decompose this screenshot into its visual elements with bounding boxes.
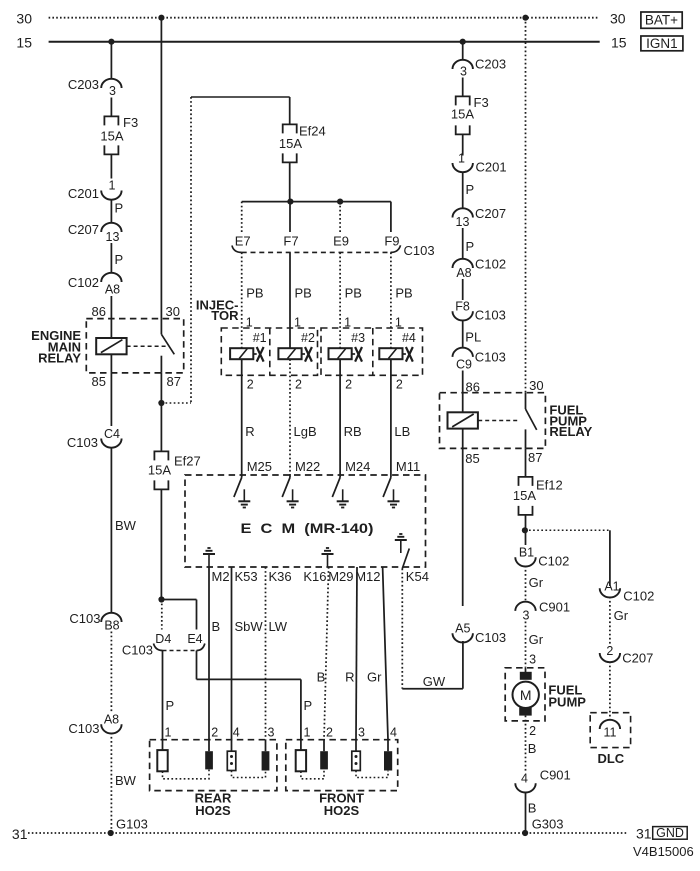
svg-text:C102: C102: [475, 257, 506, 272]
svg-text:K36: K36: [269, 569, 292, 584]
svg-text:C103: C103: [69, 611, 100, 626]
svg-text:R: R: [245, 424, 254, 439]
svg-text:30: 30: [16, 11, 32, 27]
svg-text:SbW: SbW: [235, 619, 264, 634]
svg-text:30: 30: [529, 378, 543, 393]
svg-text:C103: C103: [67, 435, 98, 450]
svg-text:LW: LW: [269, 619, 288, 634]
svg-text:BW: BW: [115, 773, 137, 788]
svg-text:M29: M29: [328, 569, 353, 584]
svg-text:2: 2: [529, 724, 536, 738]
svg-text:C207: C207: [622, 651, 653, 666]
svg-text:4: 4: [521, 772, 528, 786]
svg-text:3: 3: [460, 65, 467, 79]
svg-text:30: 30: [610, 11, 626, 27]
svg-text:13: 13: [106, 230, 120, 244]
svg-text:M25: M25: [247, 459, 272, 474]
svg-text:87: 87: [528, 450, 542, 465]
svg-text:C207: C207: [68, 222, 99, 237]
svg-text:M: M: [520, 687, 532, 703]
svg-text:A8: A8: [456, 266, 471, 280]
svg-text:PB: PB: [295, 286, 312, 301]
svg-text:C901: C901: [540, 768, 571, 783]
svg-text:C4: C4: [104, 427, 120, 441]
svg-text:RB: RB: [344, 424, 362, 439]
svg-text:K16: K16: [303, 569, 326, 584]
svg-text:C103: C103: [475, 630, 506, 645]
svg-text:31: 31: [636, 825, 652, 841]
svg-text:#1: #1: [253, 331, 267, 345]
svg-text:C102: C102: [623, 589, 654, 604]
svg-text:A8: A8: [105, 283, 120, 297]
svg-text:3: 3: [358, 726, 365, 740]
svg-text:3: 3: [529, 653, 536, 667]
svg-text:2: 2: [247, 378, 254, 392]
svg-text:Ef12: Ef12: [536, 478, 563, 493]
svg-text:PB: PB: [345, 286, 362, 301]
svg-text:86: 86: [92, 304, 106, 319]
svg-text:30: 30: [166, 304, 180, 319]
svg-text:13: 13: [456, 215, 470, 229]
svg-text:GND: GND: [656, 826, 684, 840]
svg-text:K53: K53: [235, 569, 258, 584]
svg-text:B: B: [212, 619, 221, 634]
svg-text:C201: C201: [476, 159, 507, 174]
svg-text:31: 31: [12, 826, 28, 842]
svg-text:GW: GW: [423, 674, 446, 689]
svg-text:P: P: [304, 698, 313, 713]
svg-text:P: P: [115, 201, 124, 216]
svg-text:C103: C103: [68, 721, 99, 736]
svg-text:3: 3: [268, 726, 275, 740]
svg-text:2: 2: [326, 726, 333, 740]
svg-text:RELAY: RELAY: [549, 424, 592, 439]
svg-text:BAT+: BAT+: [645, 13, 678, 28]
svg-text:#2: #2: [301, 331, 315, 345]
svg-text:PUMP: PUMP: [548, 694, 586, 709]
svg-text:15: 15: [611, 35, 627, 51]
svg-text:M2: M2: [212, 569, 230, 584]
svg-text:Gr: Gr: [614, 608, 629, 623]
svg-text:LB: LB: [394, 424, 410, 439]
svg-text:P: P: [166, 698, 175, 713]
svg-text:E C M (MR-140): E C M (MR-140): [241, 520, 374, 536]
svg-text:2: 2: [606, 644, 613, 658]
svg-text:C102: C102: [68, 275, 99, 290]
svg-text:C901: C901: [539, 600, 570, 615]
svg-text:HO2S: HO2S: [324, 803, 360, 818]
svg-text:87: 87: [167, 374, 181, 389]
svg-text:F3: F3: [474, 95, 489, 110]
svg-text:15A: 15A: [513, 488, 536, 503]
svg-text:PB: PB: [395, 286, 412, 301]
svg-text:2: 2: [396, 378, 403, 392]
svg-text:1: 1: [109, 179, 116, 193]
svg-text:Gr: Gr: [529, 575, 544, 590]
svg-text:Gr: Gr: [367, 670, 382, 685]
svg-text:IGN1: IGN1: [646, 36, 678, 51]
svg-text:85: 85: [92, 374, 106, 389]
svg-text:R: R: [345, 670, 354, 685]
svg-text:B: B: [528, 801, 537, 816]
svg-text:C103: C103: [404, 243, 435, 258]
svg-text:15: 15: [16, 35, 32, 51]
svg-text:Gr: Gr: [529, 632, 544, 647]
svg-text:3: 3: [109, 84, 116, 98]
svg-text:#4: #4: [402, 331, 416, 345]
svg-text:B: B: [317, 670, 326, 685]
svg-text:RELAY: RELAY: [38, 351, 81, 366]
svg-text:1: 1: [304, 726, 311, 740]
svg-text:15A: 15A: [100, 128, 123, 143]
svg-text:P: P: [466, 182, 475, 197]
svg-text:15A: 15A: [279, 136, 302, 151]
svg-text:C103: C103: [475, 307, 506, 322]
svg-text:M22: M22: [295, 459, 320, 474]
svg-text:15A: 15A: [451, 107, 474, 122]
svg-text:Ef27: Ef27: [174, 454, 201, 469]
svg-text:C201: C201: [68, 186, 99, 201]
svg-text:C9: C9: [456, 358, 472, 372]
svg-text:15A: 15A: [148, 463, 171, 478]
svg-text:C103: C103: [122, 643, 153, 658]
svg-text:DLC: DLC: [597, 751, 624, 766]
svg-text:G303: G303: [532, 817, 564, 832]
svg-text:C103: C103: [475, 350, 506, 365]
svg-text:F3: F3: [123, 115, 138, 130]
svg-text:C207: C207: [475, 206, 506, 221]
svg-text:G103: G103: [116, 817, 148, 832]
svg-text:P: P: [466, 239, 475, 254]
svg-text:V4B15006: V4B15006: [633, 844, 694, 859]
svg-text:Ef24: Ef24: [299, 124, 326, 139]
svg-text:F9: F9: [384, 234, 399, 249]
svg-text:BW: BW: [115, 518, 137, 533]
svg-text:3: 3: [523, 609, 530, 623]
svg-text:4: 4: [390, 726, 397, 740]
svg-text:11: 11: [604, 726, 617, 740]
svg-text:LgB: LgB: [294, 424, 317, 439]
svg-text:PB: PB: [246, 286, 263, 301]
svg-text:K54: K54: [406, 569, 429, 584]
svg-text:M24: M24: [345, 459, 370, 474]
svg-text:C203: C203: [475, 57, 506, 72]
svg-text:B8: B8: [104, 619, 119, 633]
svg-text:2: 2: [295, 378, 302, 392]
svg-text:M12: M12: [355, 569, 380, 584]
svg-text:4: 4: [233, 726, 240, 740]
svg-text:2: 2: [345, 378, 352, 392]
svg-text:A5: A5: [455, 622, 470, 636]
svg-text:E4: E4: [187, 632, 202, 646]
svg-text:1: 1: [458, 152, 465, 166]
svg-text:PL: PL: [465, 330, 481, 345]
svg-text:M11: M11: [396, 459, 420, 474]
svg-text:P: P: [115, 252, 124, 267]
svg-text:2: 2: [211, 726, 218, 740]
svg-text:HO2S: HO2S: [195, 803, 231, 818]
svg-text:B: B: [528, 741, 537, 756]
svg-text:1: 1: [165, 726, 172, 740]
svg-text:TOR: TOR: [211, 308, 239, 323]
svg-text:D4: D4: [155, 632, 171, 646]
svg-text:A1: A1: [604, 580, 619, 594]
svg-text:A8: A8: [104, 713, 119, 727]
svg-text:C203: C203: [68, 77, 99, 92]
svg-text:#3: #3: [351, 331, 365, 345]
svg-text:B1: B1: [519, 546, 534, 560]
svg-text:F7: F7: [283, 234, 298, 249]
svg-text:E9: E9: [333, 234, 349, 249]
svg-text:F8: F8: [455, 300, 470, 314]
svg-text:E7: E7: [235, 234, 251, 249]
svg-text:C102: C102: [538, 554, 569, 569]
svg-text:85: 85: [465, 451, 479, 466]
